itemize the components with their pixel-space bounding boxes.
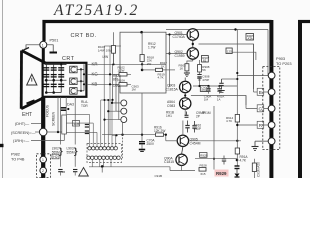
ground under cap	[218, 90, 224, 92]
transistor Q901	[173, 29, 199, 40]
spark gap link wires	[77, 64, 84, 91]
svg-text:1/2W: 1/2W	[118, 69, 125, 73]
resistor R102 on KG line	[119, 73, 127, 76]
wire vertical x142	[141, 32, 143, 54]
resistor R908	[198, 65, 202, 73]
svg-text:1M: 1M	[204, 98, 209, 102]
main top rail	[166, 29, 268, 31]
CRT funnel top diagonal	[22, 51, 46, 64]
svg-text:1: 1	[42, 158, 44, 162]
Q901 base wire	[166, 34, 187, 36]
svg-text:R10A: R10A	[118, 79, 126, 83]
svg-text:1H1: 1H1	[166, 114, 172, 118]
electrode tick	[27, 100, 35, 103]
wire from screen terminal right	[47, 131, 62, 133]
CRT funnel left edge	[20, 51, 23, 109]
wire from pin3 down	[122, 123, 124, 135]
svg-text:TOR: TOR	[81, 104, 88, 108]
svg-text:82: 82	[203, 59, 207, 63]
svg-text:(SCREEN)○—: (SCREEN)○—	[11, 131, 36, 135]
svg-text:B: B	[259, 90, 262, 95]
P903 pins	[268, 72, 275, 145]
cap above component box	[61, 107, 66, 109]
grid junction dots	[45, 63, 63, 93]
P901 wires up	[90, 100, 116, 147]
KB wire	[87, 83, 131, 85]
wires to pins	[237, 75, 268, 77]
long verticals from K lines	[103, 46, 105, 100]
svg-text:EHT: EHT	[22, 112, 32, 118]
connector P501 circle	[42, 48, 45, 63]
Q902 emitter resistor	[192, 59, 194, 61]
capacitor C70A	[141, 135, 143, 141]
wire vertical x113.5	[113, 32, 115, 63]
warning triangle	[27, 74, 37, 85]
svg-text:125: 125	[227, 49, 232, 53]
Q905 collector wire	[182, 121, 184, 136]
svg-text:R928: R928	[200, 164, 208, 168]
screen terminal circle	[39, 128, 47, 136]
ground symbol near pin5	[254, 141, 256, 146]
svg-text:SCREEN: SCREEN	[52, 111, 56, 126]
board 1 border right	[269, 20, 273, 178]
svg-text:1CB: 1CB	[73, 122, 79, 126]
svg-text:4.7K: 4.7K	[240, 159, 247, 163]
big shield rectangle	[120, 32, 166, 93]
CRT socket box	[43, 63, 87, 97]
svg-text:C454M: C454M	[190, 141, 201, 145]
svg-text:C1815A: C1815A	[166, 87, 179, 91]
svg-text:2P: 2P	[196, 115, 200, 119]
svg-text:L/W: L/W	[103, 55, 109, 59]
mid-right bus y86	[193, 85, 237, 87]
wire left of P501	[26, 45, 40, 49]
svg-text:P501: P501	[50, 39, 59, 43]
svg-text:H2: H2	[53, 155, 57, 159]
svg-text:4.7K: 4.7K	[158, 76, 164, 80]
resistor R917	[142, 69, 155, 71]
cap to ground right	[219, 79, 223, 90]
cap column 3	[58, 65, 64, 93]
junction dots on base bus	[168, 33, 170, 35]
spark gap 3	[70, 88, 82, 95]
svg-text:AT25A19.2: AT25A19.2	[53, 2, 139, 19]
svg-text:C1815: C1815	[164, 160, 174, 164]
pin circles column	[121, 100, 127, 123]
CRT funnel bottom diagonal	[21, 98, 43, 109]
ladder top bus	[101, 99, 112, 101]
capacitor R92A node	[219, 86, 221, 88]
base bus vertical x169.5	[169, 35, 171, 88]
cap column 2	[51, 65, 57, 93]
svg-text:(DHT)—: (DHT)—	[15, 122, 29, 126]
bottom small caps	[58, 170, 77, 172]
transistor Q902	[175, 48, 199, 59]
capacitors C910 C9MP	[185, 112, 197, 133]
output wire to R	[189, 140, 241, 142]
svg-text:2W: 2W	[147, 62, 152, 66]
red highlighted label R929	[215, 170, 229, 177]
cap C908	[197, 74, 201, 76]
cap C90A	[208, 86, 210, 88]
boxed R907	[202, 56, 209, 63]
boxed label C906	[200, 86, 209, 92]
connector P903 dashed box	[263, 67, 280, 150]
P901 top bus	[112, 134, 116, 136]
board 2 border left	[298, 20, 302, 178]
vertical wires below socket	[57, 97, 59, 132]
svg-text:470P: 470P	[202, 78, 209, 82]
svg-text:DA3: DA3	[67, 103, 74, 107]
transistor Q904	[167, 98, 191, 109]
Q901-Q902 link	[192, 40, 194, 48]
svg-text:C91M A50: C91M A50	[257, 162, 261, 177]
svg-text:C1740A: C1740A	[173, 35, 186, 39]
letter boxes B G R	[257, 88, 264, 95]
svg-text:990P: 990P	[194, 127, 201, 131]
svg-text:1K: 1K	[161, 64, 165, 68]
small cap x224	[223, 156, 225, 159]
cap column 1	[43, 65, 49, 93]
svg-text:CRT: CRT	[62, 56, 75, 62]
resistor R10A on KB line	[119, 83, 127, 86]
connector P982 dashed box	[37, 154, 51, 178]
svg-text:4.7K: 4.7K	[226, 119, 232, 123]
board 1 border top	[44, 22, 272, 42]
boxed label 125	[226, 48, 232, 54]
P982 pin 1	[40, 156, 47, 163]
svg-text:250V: 250V	[147, 142, 155, 146]
resistor R103	[112, 46, 116, 54]
P901 bottom bus	[92, 159, 111, 166]
svg-text:ATA: ATA	[248, 37, 253, 41]
svg-text:(1RH)○—: (1RH)○—	[13, 139, 29, 143]
wire right of P501 to ground	[47, 45, 53, 52]
svg-text:C1959: C1959	[175, 54, 185, 58]
svg-text:C91B: C91B	[155, 174, 163, 178]
component box right of screen wire	[62, 115, 67, 134]
svg-text:}: }	[74, 146, 78, 157]
bottom right components	[195, 158, 237, 160]
svg-text:1A: 1A	[217, 98, 221, 102]
svg-text:P982: P982	[11, 153, 20, 157]
nested L wires from relay area	[67, 113, 90, 115]
ladder branch wires to pins	[112, 102, 121, 104]
left edge black dash	[0, 144, 4, 147]
junction dot on shield top	[140, 31, 143, 34]
junction dots on K lines	[109, 73, 111, 75]
KG wire	[87, 73, 131, 75]
svg-text:R929: R929	[216, 171, 227, 176]
svg-text:TO P4B: TO P4B	[11, 158, 25, 162]
wire vertical x142 lower	[141, 93, 143, 135]
left page edge line	[2, 0, 4, 178]
mid bus	[102, 134, 166, 136]
svg-text:867: 867	[113, 78, 119, 82]
EHT thick lead	[41, 97, 45, 178]
junction dots x237	[236, 72, 238, 74]
right verticals	[236, 58, 238, 149]
board 2 border top	[298, 20, 310, 23]
junction dot node G out	[184, 94, 186, 96]
transistor Q906	[164, 154, 187, 165]
svg-text:2: 2	[42, 169, 44, 173]
P982 pin 2	[40, 167, 47, 174]
svg-text:615: 615	[201, 172, 206, 176]
svg-text:G: G	[259, 106, 263, 111]
svg-text:R92B: R92B	[200, 153, 207, 157]
svg-text:1/4W 1/9V: 1/4W 1/9V	[98, 48, 112, 52]
wire from box 125	[232, 52, 256, 60]
output wire to G	[191, 96, 246, 106]
svg-text:CRT BD.: CRT BD.	[71, 33, 97, 39]
small caps beside ladder	[85, 125, 89, 134]
boxed label near Q906	[200, 153, 208, 158]
ground under C908	[197, 77, 201, 79]
dashed connector side	[121, 137, 123, 158]
svg-text:C983: C983	[167, 104, 175, 108]
socket capacitor grid	[43, 65, 66, 93]
bottom middle wires	[121, 166, 170, 168]
wire stubs below caps	[59, 172, 61, 176]
P901 pin row 1	[88, 147, 118, 150]
R928	[199, 168, 206, 172]
svg-text:1.7W: 1.7W	[148, 46, 155, 50]
svg-text:}: }	[59, 146, 63, 157]
svg-text:1: 1	[42, 44, 44, 48]
ground under C70A	[139, 149, 145, 151]
svg-text:1K: 1K	[180, 67, 184, 71]
output wire to B	[199, 44, 254, 92]
Q905 base wire	[166, 140, 177, 142]
svg-text:FOCUS: FOCUS	[46, 104, 50, 117]
Q902 base wire	[166, 53, 187, 55]
connector P901 dashed box	[87, 144, 122, 163]
transistor Q903	[166, 81, 191, 92]
warning triangle 2	[79, 168, 89, 177]
boxed label 1CB	[73, 121, 80, 127]
Q905-Q906 link wire	[182, 147, 183, 155]
spark gap 2	[70, 78, 82, 85]
ground bar	[50, 52, 58, 54]
Q904 emitter wire	[184, 109, 186, 116]
dag tick	[24, 48, 30, 51]
svg-text:1/9W: 1/9W	[113, 84, 120, 88]
svg-text:1M: 1M	[132, 88, 137, 92]
wire y79	[222, 78, 238, 80]
Q903-Q904 link wire	[184, 93, 186, 98]
wires from labels	[31, 123, 41, 125]
wire rail to x237	[236, 30, 238, 58]
resistor R918	[140, 55, 144, 62]
spark gap 1	[70, 66, 82, 73]
svg-text:56: 56	[202, 68, 206, 72]
Q903 collector wire	[184, 78, 186, 82]
KR wire	[87, 63, 166, 65]
wire below R103	[113, 53, 115, 64]
transistor Q905	[177, 135, 200, 146]
cap stack	[235, 165, 240, 167]
P901 pin row 2	[87, 156, 120, 159]
svg-text:TO P203: TO P203	[276, 61, 292, 66]
H2 box	[52, 154, 59, 159]
